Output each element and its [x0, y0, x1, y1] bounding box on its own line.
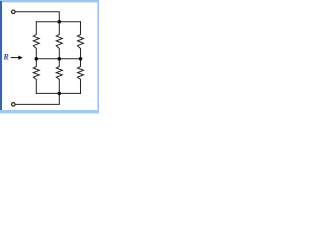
frame left border [0, 1, 2, 113]
resistor R5 lower-middle [56, 59, 62, 94]
node C junction dot (middle rail center) [58, 57, 62, 61]
wire bottom rail [36, 92, 80, 94]
node E junction dot (bottom feed) [58, 92, 62, 96]
arrow into network [11, 56, 23, 60]
frame top band [0, 0, 99, 2]
resistor R6 lower-right [78, 59, 84, 94]
resistor R3 upper-right [78, 22, 84, 59]
node A junction dot (top feed) [58, 20, 62, 24]
wire bottom feed [16, 93, 60, 104]
frame right border [97, 2, 99, 113]
node B junction dot (middle rail left) [35, 57, 39, 61]
wire middle rail [36, 58, 80, 60]
terminal T2 (bottom input) [12, 103, 16, 107]
wire upper rail [36, 21, 80, 23]
wire top feed [16, 12, 60, 22]
resistor R2 upper-middle [56, 22, 62, 59]
svg-text:R: R [2, 53, 9, 62]
terminal T1 (top input) [12, 10, 16, 14]
resistor R1 upper-left [33, 22, 39, 59]
node D junction dot (middle rail right) [79, 57, 83, 61]
resistor R4 lower-left [33, 59, 39, 94]
frame bottom band [0, 110, 99, 113]
